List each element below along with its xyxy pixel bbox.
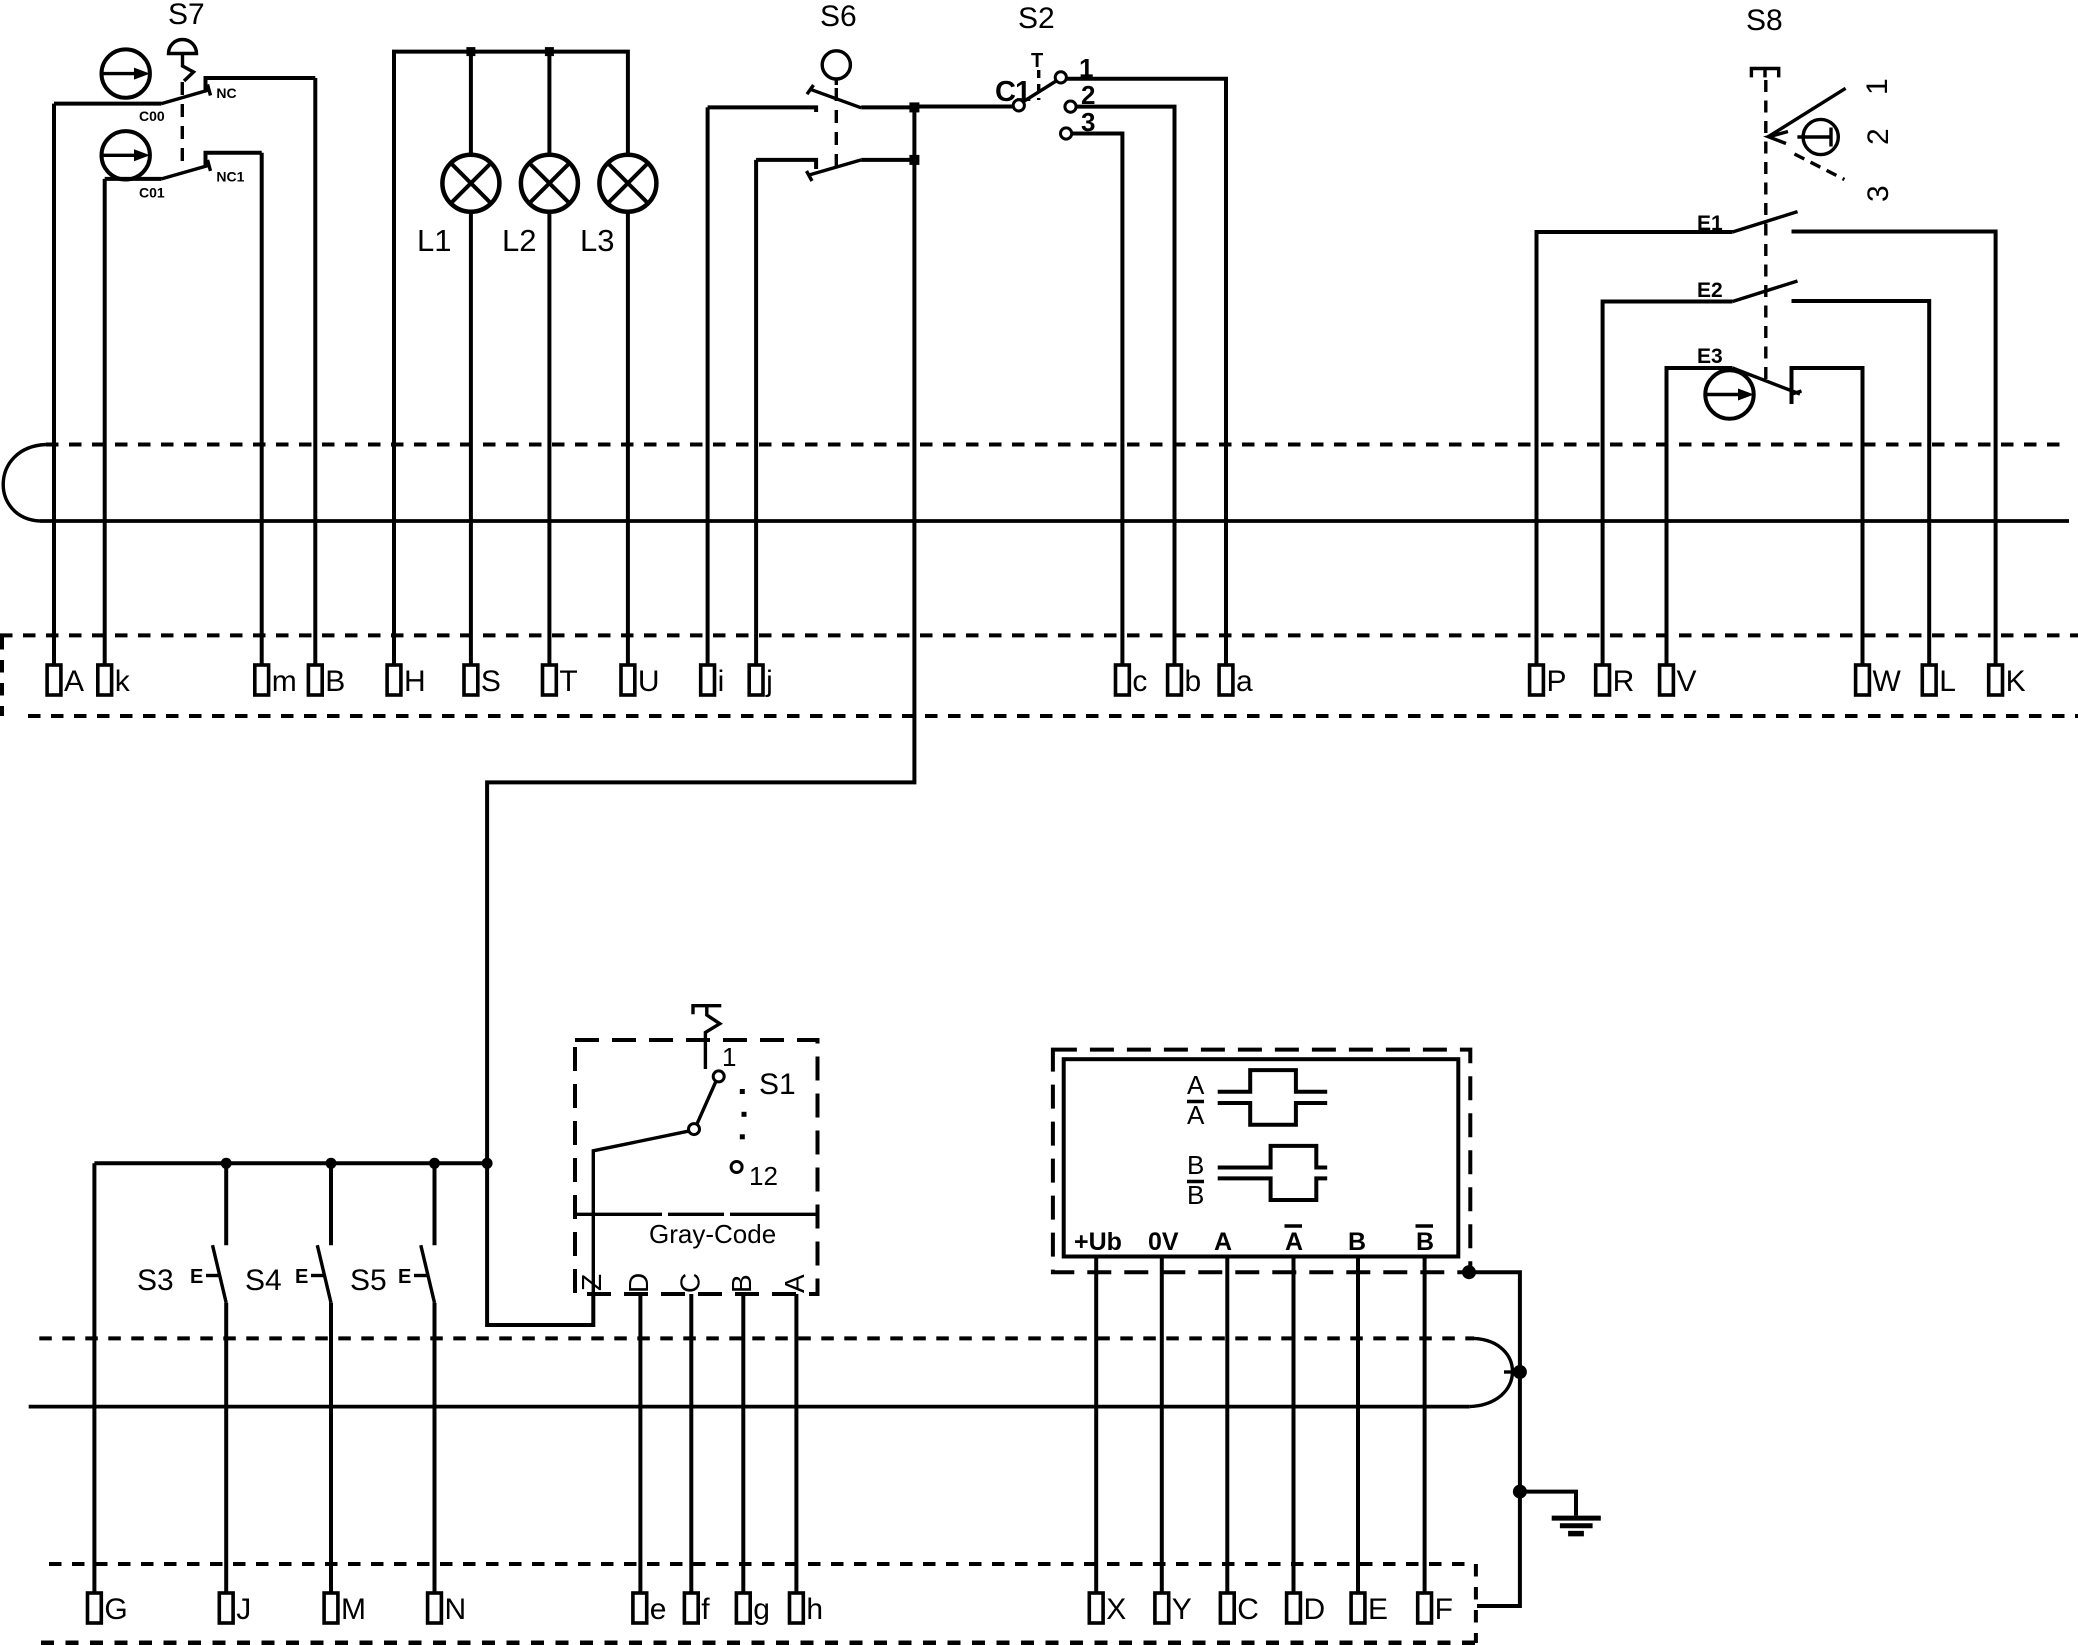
outer dashed box <box>1053 1050 1470 1273</box>
lamp L1 <box>442 155 499 212</box>
terminal C <box>1220 1593 1259 1626</box>
svg-text:C: C <box>1237 1593 1259 1626</box>
wire A pin to h <box>794 1294 798 1593</box>
svg-text:L: L <box>1939 665 1956 698</box>
wire into pivot <box>914 105 1013 109</box>
terminal P <box>1530 665 1567 698</box>
terminal f <box>684 1593 710 1626</box>
svg-text:J: J <box>236 1593 251 1626</box>
wire B pin to g <box>741 1294 745 1593</box>
svg-text:A: A <box>1214 1228 1232 1256</box>
svg-text:S: S <box>481 665 501 698</box>
contact NC1 wire left <box>105 177 162 181</box>
wire A vertical <box>52 104 56 665</box>
arrowhead <box>1769 132 1789 144</box>
lower cable dashed bus <box>39 1336 1474 1340</box>
svg-text:NC1: NC1 <box>216 169 244 185</box>
svg-text:2: 2 <box>1862 128 1895 145</box>
svg-text:B: B <box>726 1274 757 1293</box>
contact NC fixed <box>206 78 316 92</box>
svg-text:A: A <box>779 1274 810 1293</box>
svg-text:k: k <box>115 665 131 698</box>
upper cable dashed bus <box>46 443 2064 447</box>
terminal G <box>88 1593 128 1626</box>
terminal F <box>1418 1593 1453 1626</box>
terminal U <box>621 665 660 698</box>
wire B-bar to F <box>1423 1257 1427 1594</box>
E1 contact <box>1537 212 1996 665</box>
lower cable solid bus <box>29 1405 1470 1409</box>
svg-text:1: 1 <box>1861 78 1894 95</box>
contact 3 <box>1061 128 1072 139</box>
svg-text:T: T <box>1031 50 1043 72</box>
svg-text:+Ub: +Ub <box>1074 1228 1122 1256</box>
E3 actuator circle <box>1705 370 1753 418</box>
svg-text:Z: Z <box>576 1274 607 1291</box>
contact NC blade <box>162 90 211 104</box>
timer circle <box>1803 119 1838 154</box>
wire 3 <box>1072 134 1123 666</box>
node <box>1513 1485 1527 1499</box>
svg-text:E: E <box>1368 1593 1388 1626</box>
terminal m <box>255 665 297 698</box>
junction <box>466 47 475 56</box>
S6 dashed shaft <box>835 88 838 170</box>
svg-text:S1: S1 <box>759 1068 796 1101</box>
terminal A <box>47 665 84 698</box>
svg-text:0V: 0V <box>1148 1228 1179 1256</box>
node <box>1462 1265 1476 1279</box>
svg-text:U: U <box>638 665 660 698</box>
pushbutton S3 <box>137 1163 226 1593</box>
svg-text:F: F <box>1435 1593 1453 1626</box>
node <box>221 1158 232 1169</box>
svg-text:L3: L3 <box>580 223 614 258</box>
waveform A-bar <box>1218 1103 1328 1125</box>
lamp L2 <box>521 155 578 212</box>
svg-text:H: H <box>404 665 426 698</box>
wire to lower half <box>487 107 914 1164</box>
terminal M <box>324 1593 366 1626</box>
svg-text:G: G <box>104 1593 127 1626</box>
svg-text:E: E <box>190 1266 203 1288</box>
svg-text:C1: C1 <box>995 76 1031 108</box>
svg-text:N: N <box>445 1593 467 1626</box>
svg-text:E: E <box>398 1266 411 1288</box>
terminal H <box>387 665 426 698</box>
wire G vertical <box>92 1163 96 1593</box>
terminal W <box>1856 665 1902 698</box>
terminal B <box>308 665 345 698</box>
svg-text:T: T <box>559 665 577 698</box>
dots <box>740 1089 745 1094</box>
svg-text:Gray-Code: Gray-Code <box>649 1219 776 1249</box>
upper cable solid bus <box>40 519 2069 523</box>
svg-text:A: A <box>1187 1070 1205 1100</box>
svg-text:W: W <box>1873 665 1902 698</box>
junction <box>545 47 554 56</box>
svg-text:L2: L2 <box>502 223 536 258</box>
terminal V <box>1660 665 1697 698</box>
terminal j <box>749 665 773 698</box>
upper cable U-turn arc <box>3 445 46 522</box>
svg-text:i: i <box>718 665 725 698</box>
dashed line to pos 3 <box>1795 154 1845 180</box>
svg-text:B: B <box>1187 1180 1204 1210</box>
wire 1 <box>1066 79 1226 665</box>
terminal b <box>1168 665 1202 698</box>
S1 contact 1 <box>713 1071 724 1082</box>
terminal J <box>219 1593 251 1626</box>
S6 upper contact <box>708 107 817 112</box>
svg-text:S5: S5 <box>350 1264 387 1297</box>
ground symbol <box>1552 1516 1601 1521</box>
S6 lower contact <box>756 160 816 169</box>
lamp group L1 L2 L3 <box>394 47 656 665</box>
contact NC1 fixed <box>206 153 262 166</box>
svg-text:g: g <box>753 1593 770 1626</box>
S1 pivot <box>689 1124 700 1135</box>
svg-text:j: j <box>765 665 773 698</box>
S2 selector group <box>914 2 1226 665</box>
lamp L3 <box>599 155 656 212</box>
wire C pin to f <box>689 1294 693 1593</box>
contact 2 <box>1065 101 1076 112</box>
Gray-Code encoder dashed box <box>575 1006 818 1294</box>
svg-text:P: P <box>1547 665 1567 698</box>
pivot C1 <box>1013 100 1024 111</box>
waveform B-bar <box>1218 1178 1328 1200</box>
svg-text:Y: Y <box>1172 1593 1192 1626</box>
T dashed stem <box>1037 70 1040 100</box>
terminal k <box>98 665 131 698</box>
wire i vertical <box>706 107 710 665</box>
svg-text:A: A <box>1285 1228 1303 1256</box>
svg-text:1: 1 <box>722 1042 736 1072</box>
S8 key bracket <box>1751 69 1778 78</box>
waveform B <box>1218 1146 1328 1168</box>
wire T vertical <box>547 52 551 155</box>
svg-text:A: A <box>1187 1100 1205 1130</box>
terminal Y <box>1155 1593 1192 1626</box>
svg-text:S8: S8 <box>1746 4 1783 37</box>
terminal e <box>633 1593 667 1626</box>
S7 dashed shaft <box>181 82 184 166</box>
svg-text:A: A <box>64 665 84 698</box>
svg-text:c: c <box>1132 665 1147 698</box>
wire D pin to e <box>638 1294 642 1593</box>
svg-text:a: a <box>1236 665 1253 698</box>
svg-text:m: m <box>272 665 297 698</box>
E2 contact <box>1603 279 1930 665</box>
wire j vertical <box>754 160 758 665</box>
contact NC1 blade <box>162 165 211 179</box>
terminal strip 1 dashed box <box>0 633 2078 637</box>
inner solid box <box>1064 1059 1459 1256</box>
svg-text:E: E <box>295 1266 308 1288</box>
svg-text:L1: L1 <box>417 223 451 258</box>
terminal L <box>1922 665 1956 698</box>
inner separator <box>575 1213 818 1216</box>
svg-text:3: 3 <box>1862 185 1895 202</box>
node <box>429 1158 440 1169</box>
svg-text:S4: S4 <box>245 1264 282 1297</box>
wire 0V to Y <box>1160 1257 1164 1594</box>
S6 switch group <box>487 0 919 1164</box>
terminal i <box>701 665 725 698</box>
encoder electronics box <box>1053 1050 1470 1273</box>
S7 switch group <box>54 0 315 665</box>
actuator circle 2 (arrow drive) <box>102 131 150 179</box>
S1 contact 12 <box>731 1162 742 1173</box>
svg-text:S3: S3 <box>137 1264 174 1297</box>
svg-text:S6: S6 <box>820 0 857 33</box>
svg-text:D: D <box>1304 1593 1326 1626</box>
svg-text:b: b <box>1185 665 1202 698</box>
wire B vertical <box>313 78 317 665</box>
svg-text:f: f <box>701 1593 710 1626</box>
svg-text:12: 12 <box>749 1161 778 1191</box>
svg-text:B: B <box>1187 1150 1204 1180</box>
svg-text:X: X <box>1106 1593 1126 1626</box>
svg-text:S7: S7 <box>168 0 205 31</box>
svg-text:E3: E3 <box>1697 345 1723 368</box>
terminal T <box>543 665 578 698</box>
wire 2 <box>1076 107 1174 665</box>
waveform A <box>1218 1070 1328 1092</box>
wire k vertical <box>103 179 107 665</box>
svg-text:R: R <box>1613 665 1635 698</box>
svg-text:B: B <box>1348 1228 1366 1256</box>
actuator circle 1 (arrow drive) <box>102 49 150 97</box>
S8 blade to pos 1 <box>1768 88 1846 137</box>
terminal strip 2 dashed box <box>49 1562 1475 1566</box>
svg-text:M: M <box>341 1593 366 1626</box>
node <box>1513 1365 1527 1379</box>
svg-text:C: C <box>675 1273 706 1293</box>
node <box>482 1158 493 1169</box>
terminal E <box>1351 1593 1388 1626</box>
terminal S <box>464 665 501 698</box>
svg-text:h: h <box>806 1593 823 1626</box>
S1 blade <box>697 1081 716 1124</box>
S3 S4 S5 rail <box>94 1161 487 1165</box>
pushbutton S5 <box>350 1163 435 1593</box>
svg-text:S2: S2 <box>1018 2 1055 35</box>
node <box>909 155 919 165</box>
terminal R <box>1596 665 1635 698</box>
node <box>326 1158 337 1169</box>
wire top bus <box>394 52 628 665</box>
svg-text:D: D <box>623 1273 654 1293</box>
wire S vertical <box>469 52 473 155</box>
shield wire from box corner <box>1462 1265 1601 1606</box>
svg-text:K: K <box>2006 665 2026 698</box>
terminal X <box>1089 1593 1126 1626</box>
wire A to C <box>1225 1257 1229 1594</box>
ground branch <box>1520 1492 1576 1516</box>
S2 blade <box>1023 81 1057 102</box>
S6 knob circle <box>822 51 850 79</box>
S8 selector group <box>1746 4 1895 381</box>
terminal h <box>790 1593 824 1626</box>
terminal a <box>1219 665 1253 698</box>
wire U vertical <box>626 212 630 665</box>
wire B to E <box>1356 1257 1360 1594</box>
wire A-bar to D <box>1292 1257 1296 1594</box>
terminal K <box>1989 665 2026 698</box>
wire +Ub to X <box>1094 1257 1098 1594</box>
terminal D <box>1287 1593 1326 1626</box>
svg-text:e: e <box>650 1593 667 1626</box>
arc stub to shield <box>1504 1370 1520 1373</box>
svg-text:C01: C01 <box>139 185 165 201</box>
svg-text:V: V <box>1677 665 1697 698</box>
svg-text:C00: C00 <box>139 108 165 124</box>
terminal g <box>736 1593 770 1626</box>
S1 actuator <box>693 1006 721 1069</box>
wire rail to Z pin <box>487 1163 593 1325</box>
wire m vertical <box>260 153 264 665</box>
pushbutton S4 <box>245 1163 331 1593</box>
svg-text:B: B <box>325 665 345 698</box>
S8 dashed shaft <box>1764 80 1767 381</box>
E3 contact <box>1667 345 1863 665</box>
node <box>909 102 919 112</box>
lower cable U-turn arc <box>1470 1338 1513 1406</box>
terminal N <box>428 1593 467 1626</box>
terminal c <box>1116 665 1148 698</box>
svg-text:NC: NC <box>216 85 236 101</box>
contact NC wire left <box>54 102 162 106</box>
svg-text:E2: E2 <box>1697 279 1723 302</box>
S7 bell actuator <box>169 40 197 54</box>
contact 1 <box>1055 72 1066 83</box>
S1 blade tail to Z <box>593 1131 689 1294</box>
svg-text:B: B <box>1416 1228 1434 1256</box>
